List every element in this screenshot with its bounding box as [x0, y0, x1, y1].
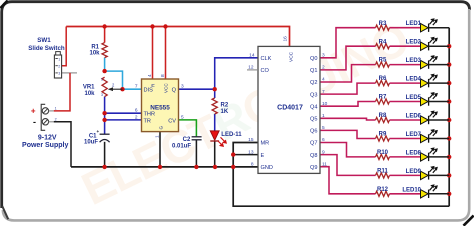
wire VR1 bottom to THR TR C1: [104, 97, 106, 135]
svg-text:Q6: Q6: [310, 129, 317, 135]
svg-text:2: 2: [55, 117, 57, 121]
LED LED-11: [210, 131, 242, 147]
junction node LED10 return: [447, 192, 451, 196]
svg-text:0.01uF: 0.01uF: [172, 143, 191, 149]
junction node THR: [102, 111, 106, 115]
svg-text:R8: R8: [379, 113, 387, 119]
wire R11 to LED9: [390, 174, 421, 176]
svg-text:R6: R6: [379, 76, 387, 82]
wire power supply - to ground rail: [54, 122, 71, 167]
counter U2 CD4017: [248, 36, 328, 174]
wire LED6 to return rail: [429, 119, 450, 121]
svg-text:Q7: Q7: [310, 141, 317, 147]
svg-text:TR: TR: [144, 118, 151, 124]
wire R1 top lead to rail: [104, 27, 106, 43]
wire ground rail: [71, 166, 258, 168]
junction node C2-ground: [194, 165, 198, 169]
wire NE555 pin4 to rail: [152, 27, 154, 80]
svg-text:5: 5: [322, 125, 325, 131]
resistor R3: [376, 21, 390, 31]
wire switch pin2 to rail: [62, 27, 67, 66]
svg-text:C1: C1: [89, 133, 97, 139]
wire VCC top rail: [66, 27, 289, 47]
svg-text:SW1: SW1: [37, 37, 51, 44]
svg-text:MR: MR: [261, 141, 270, 147]
svg-text:1: 1: [101, 78, 103, 82]
LED LED10: [402, 184, 438, 198]
wire Q6 to R9: [320, 130, 376, 138]
svg-text:R5: R5: [379, 58, 387, 64]
wire Q3 to R6: [320, 83, 376, 94]
svg-text:5: 5: [181, 114, 184, 120]
svg-text:Q3: Q3: [310, 92, 317, 98]
svg-text:VCC: VCC: [164, 83, 169, 93]
junction node rail-R1: [102, 24, 106, 28]
svg-text:6: 6: [135, 108, 138, 114]
svg-text:LED9: LED9: [406, 169, 422, 175]
wire LED-11 cathode to ground rail: [214, 141, 216, 167]
svg-text:1: 1: [155, 135, 161, 138]
svg-text:4: 4: [147, 74, 153, 77]
svg-text:LED8: LED8: [406, 150, 422, 156]
svg-text:Q: Q: [172, 88, 177, 94]
LED LED3: [406, 55, 438, 69]
capacitor C2: [172, 137, 202, 150]
svg-text:R2: R2: [221, 103, 229, 109]
svg-text:1K: 1K: [221, 109, 229, 115]
slide switch SW1: [28, 37, 65, 78]
svg-text:Q1: Q1: [310, 68, 317, 74]
wire R9 to LED7: [390, 138, 421, 140]
junction node LED6 return: [447, 118, 451, 122]
LED LED5: [406, 92, 438, 106]
svg-text:3: 3: [101, 93, 103, 97]
svg-text:2: 2: [58, 65, 60, 69]
wire node to DIS pin: [105, 71, 142, 89]
wire Q7 to R10: [320, 143, 376, 157]
svg-text:+: +: [97, 129, 100, 134]
svg-text:NE555: NE555: [150, 105, 170, 112]
svg-text:Q8: Q8: [310, 153, 317, 159]
LED LED2: [406, 37, 438, 51]
svg-text:10: 10: [322, 101, 328, 107]
junction node VR1 wiper-DIS: [120, 87, 124, 91]
resistor R4: [376, 39, 390, 49]
wire R2 to LED-11: [214, 114, 216, 131]
potentiometer VR1: [83, 77, 123, 97]
svg-text:CO: CO: [261, 68, 270, 74]
svg-text:13: 13: [248, 149, 254, 155]
resistor R6: [376, 76, 390, 86]
svg-text:9: 9: [322, 149, 325, 155]
junction node TR: [102, 118, 106, 122]
svg-text:C2: C2: [183, 137, 191, 143]
svg-text:10uF: 10uF: [84, 140, 98, 146]
svg-text:LED4: LED4: [406, 77, 422, 83]
svg-text:R4: R4: [379, 39, 387, 45]
wire Q5 to R8: [320, 118, 376, 120]
LED LED8: [406, 147, 438, 161]
wire Q0 to R3: [320, 28, 376, 58]
svg-text:R12: R12: [377, 187, 389, 193]
svg-text:LED7: LED7: [406, 132, 422, 138]
svg-text:16: 16: [282, 36, 288, 42]
svg-text:+: +: [31, 107, 36, 116]
LED LED4: [406, 74, 438, 88]
svg-text:Q2: Q2: [310, 80, 317, 86]
svg-text:Power Supply: Power Supply: [22, 142, 68, 149]
junction node E-groundnet: [231, 152, 235, 156]
svg-text:14: 14: [249, 53, 255, 59]
wire Q9 to R12: [320, 167, 376, 194]
wire R6 to LED4: [390, 82, 421, 84]
resistor R5: [376, 58, 390, 67]
junction node rail-555 pin8: [163, 24, 167, 28]
wire NE555 GND pin1 to rail: [159, 132, 161, 167]
svg-text:GND: GND: [261, 165, 273, 171]
svg-text:R10: R10: [377, 150, 389, 156]
wire LED2 to return rail: [429, 45, 450, 47]
wire Q output to node: [179, 88, 215, 90]
wire Q2 to R5: [320, 65, 376, 82]
svg-text:LED5: LED5: [406, 95, 422, 101]
svg-text:R9: R9: [379, 132, 387, 138]
junction node LED8 return: [447, 155, 451, 159]
pin CO stub: [247, 69, 258, 71]
svg-text:Q0: Q0: [310, 56, 317, 62]
wire LED return rail: [448, 28, 450, 207]
wire E pin to ground net: [233, 154, 258, 156]
junction node LED11-ground: [213, 165, 217, 169]
wire R4 to LED2: [390, 45, 421, 47]
wire R1 bottom to node: [104, 58, 106, 72]
svg-text:3: 3: [181, 84, 184, 90]
wire THR pin: [105, 112, 142, 114]
svg-text:Slide Switch: Slide Switch: [28, 45, 65, 52]
svg-text:CV: CV: [168, 118, 176, 124]
wire R2 top lead: [214, 89, 216, 98]
resistor R10: [376, 150, 390, 160]
wire Q8 to R11: [320, 155, 376, 176]
wire LED3 to return rail: [429, 64, 450, 66]
resistor R1: [89, 43, 107, 58]
power supply terminal J1: [22, 104, 68, 149]
svg-text:Q5: Q5: [310, 117, 317, 123]
op-amp U1 NE555 timer: [135, 74, 184, 138]
svg-text:R11: R11: [377, 169, 388, 175]
wire CV to C2: [179, 120, 197, 136]
svg-text:Q9: Q9: [310, 165, 317, 171]
junction node LED4 return: [447, 81, 451, 85]
svg-text:LED6: LED6: [406, 114, 422, 120]
svg-text:4: 4: [322, 77, 325, 83]
svg-text:G: G: [158, 126, 163, 130]
junction node groundnet-rail: [231, 165, 235, 169]
svg-text:11: 11: [322, 161, 327, 167]
pin switch pin3 stub: [62, 72, 77, 74]
wire Q1 to R4: [320, 46, 376, 70]
wire R3 to LED1: [390, 27, 421, 29]
svg-text:2: 2: [135, 114, 138, 120]
wire R5 to LED3: [390, 64, 421, 66]
svg-text:3: 3: [58, 72, 60, 76]
junction node Q-CLK-R2: [213, 87, 217, 91]
svg-text:CD4017: CD4017: [277, 105, 303, 112]
svg-text:-: -: [33, 117, 36, 127]
junction node rail-555 pin4: [150, 24, 154, 28]
svg-text:LED-11: LED-11: [221, 132, 242, 138]
svg-text:6: 6: [322, 137, 325, 143]
wire LED5 to return rail: [429, 101, 450, 103]
wire C1 to ground rail: [104, 142, 106, 167]
svg-text:R1: R1: [91, 44, 99, 50]
wire LED8 to return rail: [429, 156, 450, 158]
svg-text:1: 1: [58, 57, 60, 61]
wire switch pin3 to power supply +: [54, 73, 70, 111]
wire LED4 to return rail: [429, 82, 450, 84]
junction node 555GND-ground: [158, 165, 162, 169]
LED LED7: [406, 129, 438, 143]
svg-text:Q4: Q4: [310, 104, 317, 110]
LED LED1: [406, 18, 438, 32]
svg-text:1: 1: [322, 113, 325, 119]
svg-text:7: 7: [322, 89, 325, 95]
svg-text:E: E: [261, 153, 265, 159]
junction node R1-VR1: [102, 69, 106, 73]
svg-text:LED3: LED3: [406, 58, 422, 64]
wire LED7 to return rail: [429, 138, 450, 140]
wire R12 to LED10: [390, 193, 421, 195]
junction node C1-ground: [102, 165, 106, 169]
wire LED1 to return rail: [429, 27, 450, 29]
resistor R7: [376, 95, 390, 105]
svg-text:VCC: VCC: [289, 51, 295, 62]
svg-text:7: 7: [135, 84, 138, 90]
capacitor C1: [84, 129, 110, 145]
resistor R11: [376, 169, 390, 179]
svg-text:LED10: LED10: [402, 187, 421, 193]
LED LED6: [406, 111, 438, 125]
junction node LED9 return: [447, 173, 451, 177]
resistor R8: [376, 113, 390, 123]
wire LED10 to return rail: [429, 193, 450, 195]
wire TR pin: [105, 119, 142, 121]
svg-text:1: 1: [55, 106, 57, 110]
svg-text:R3: R3: [379, 21, 387, 27]
svg-text:3: 3: [322, 53, 325, 59]
wire node to CLK pin 14: [215, 58, 258, 89]
LED LED9: [406, 166, 438, 180]
junction node LED3 return: [447, 62, 451, 66]
wire Q4 to R7: [320, 102, 376, 107]
svg-text:DIS: DIS: [144, 88, 154, 94]
wire R7 to LED5: [390, 101, 421, 103]
junction node LED2 return: [447, 44, 451, 48]
wire ground net MR E GND down to bottom rail: [233, 143, 449, 207]
svg-text:2: 2: [322, 65, 325, 71]
svg-text:10k: 10k: [84, 91, 95, 97]
svg-text:THR: THR: [144, 112, 156, 118]
svg-text:8: 8: [251, 162, 254, 168]
wire NE555 pin8 to rail: [165, 27, 167, 80]
svg-text:R7: R7: [379, 95, 387, 101]
wire LED9 to return rail: [429, 174, 450, 176]
wire R10 to LED8: [390, 156, 421, 158]
junction node LED7 return: [447, 136, 451, 140]
resistor R9: [376, 132, 390, 142]
svg-text:CLK: CLK: [261, 56, 272, 62]
svg-text:10k: 10k: [89, 51, 100, 57]
svg-text:9-12V: 9-12V: [38, 135, 57, 142]
svg-text:LED2: LED2: [406, 40, 422, 46]
wire R8 to LED6: [390, 119, 421, 121]
svg-text:15: 15: [248, 137, 254, 143]
svg-text:8: 8: [160, 74, 166, 77]
resistor R12: [376, 187, 390, 197]
resistor R2: [212, 98, 229, 115]
svg-text:LED1: LED1: [406, 21, 422, 27]
junction node LED5 return: [447, 99, 451, 103]
svg-text:VR1: VR1: [83, 85, 95, 91]
wire C2 to ground rail: [195, 140, 197, 167]
